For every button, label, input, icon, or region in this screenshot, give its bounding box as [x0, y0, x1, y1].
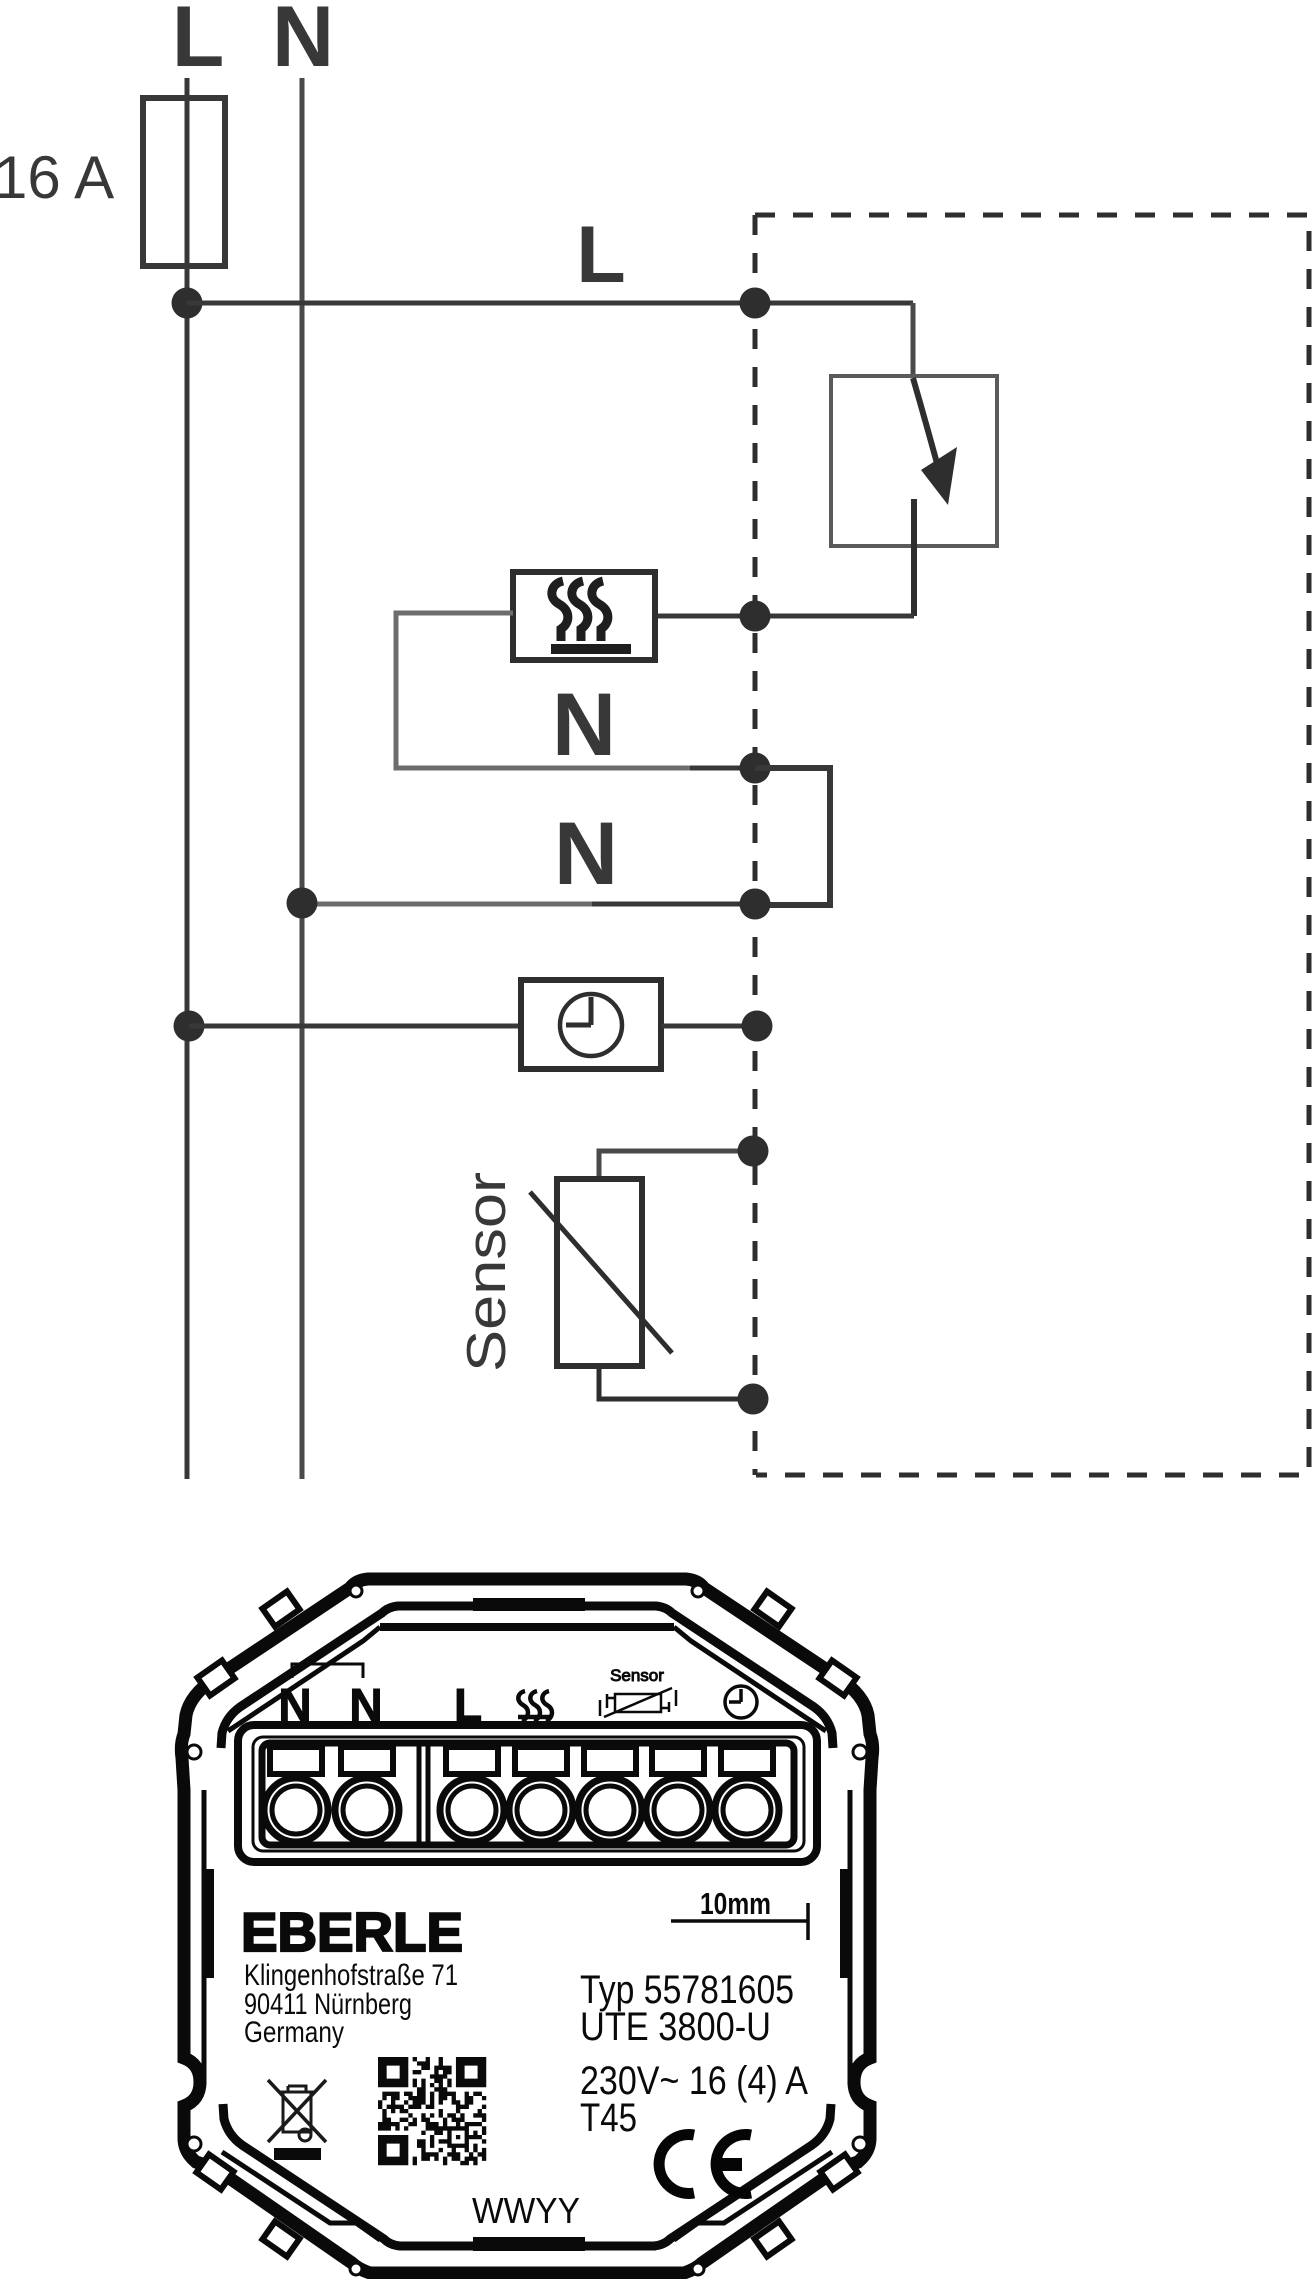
wire switch top lead: [911, 303, 916, 378]
fuse F1 body: [143, 98, 225, 266]
terminal label heater symbol: [518, 1691, 552, 1725]
terminal 1 window: [270, 1747, 322, 1774]
device mounting tab upper-left 1: [262, 1591, 299, 1626]
clock module K1 box: [521, 980, 661, 1069]
svg-text:N: N: [552, 674, 616, 774]
terminal 1 screw: [264, 1778, 328, 1842]
svg-text:N: N: [554, 803, 618, 903]
junction sensor top: [738, 1136, 769, 1167]
svg-text:N: N: [272, 0, 334, 85]
device casing third band top: [380, 1623, 674, 1631]
device casing notch arcs: [187, 1585, 867, 2275]
wire L horizontal to thermostat: [187, 301, 913, 306]
junction clock input: [742, 1011, 773, 1042]
device casing side bar left: [206, 1869, 214, 1978]
device mounting tab upper-left 2: [197, 1660, 234, 1695]
wire N vertical: [300, 78, 305, 1479]
heater E1 box: [513, 572, 655, 660]
device casing outer ring right half: [527, 1579, 873, 2273]
clock module K1 hands: [566, 997, 591, 1025]
terminal 3 screw: [440, 1778, 504, 1842]
wire heater to switch: [655, 614, 914, 619]
wire clock to enclosure: [661, 1024, 757, 1029]
terminal block divider: [419, 1743, 428, 1845]
relay switch S1 arm: [913, 378, 941, 478]
junction N on N line: [287, 888, 318, 919]
relay switch S1 box: [831, 376, 997, 546]
svg-text:16 A: 16 A: [0, 144, 114, 211]
terminal 2 screw: [335, 1778, 399, 1842]
CE marking: [659, 2135, 751, 2194]
device casing third band bottom stubs: [222, 2152, 832, 2240]
terminal N bridge bracket: [292, 1664, 363, 1678]
device mounting tab lower-left 2: [262, 2221, 299, 2256]
device mounting tab lower-right 2: [754, 2221, 791, 2256]
svg-text:T45: T45: [580, 2096, 637, 2140]
sensor RT1 diagonal: [530, 1192, 672, 1353]
device casing side bar right: [840, 1869, 848, 1978]
terminal 7 screw: [715, 1778, 779, 1842]
junction L below fuse: [172, 288, 203, 319]
relay switch S1 arrowhead: [921, 447, 957, 505]
wire N bridge bracket: [755, 768, 830, 905]
terminal 4 screw: [509, 1778, 573, 1842]
terminal 2 window: [341, 1747, 393, 1774]
terminal label clock symbol: [725, 1686, 757, 1718]
terminal 6 screw: [646, 1778, 710, 1842]
device casing bottom tab: [473, 2237, 585, 2251]
terminal 7 window: [721, 1747, 773, 1774]
wire L vertical: [185, 78, 190, 1479]
wire sensor top lead: [599, 1151, 753, 1180]
device casing top tab: [473, 1598, 585, 1611]
terminal 4 window: [515, 1747, 567, 1774]
terminal 5 screw: [578, 1778, 642, 1842]
strip length gauge line: [671, 1903, 808, 1940]
svg-text:UTE 3800-U: UTE 3800-U: [580, 2005, 771, 2049]
thermostat enclosure dashed outline: [755, 215, 1309, 1475]
wire heater N loop: [396, 613, 690, 768]
wire switch bottom lead: [911, 499, 917, 616]
heater E1 element symbol: [552, 581, 608, 641]
sensor RT1 body: [557, 1179, 642, 1366]
junction L clock tap: [174, 1011, 205, 1042]
terminal block inner frame: [253, 1737, 804, 1851]
wire N supply horizontal: [302, 902, 592, 907]
device mounting tab upper-right 2: [819, 1660, 856, 1695]
device casing middle band top: [221, 1606, 656, 1748]
WEEE crossed-out bin icon: [268, 2080, 326, 2142]
svg-text:Sensor: Sensor: [455, 1172, 517, 1372]
wire L to clock: [189, 1024, 521, 1029]
device casing outer ring left half: [181, 1579, 527, 2273]
junction heater L side: [740, 601, 771, 632]
device mounting tab lower-right 1: [820, 2154, 857, 2189]
junction heater N: [740, 753, 771, 784]
terminal label sensor symbol: [615, 1694, 661, 1712]
device mounting tab lower-left 1: [196, 2154, 233, 2189]
terminal 3 window: [446, 1747, 498, 1774]
junction sensor bottom: [738, 1384, 769, 1415]
svg-text:WWYY: WWYY: [472, 2190, 580, 2231]
WEEE bar: [274, 2148, 321, 2160]
heater E1 base bar: [551, 644, 631, 654]
QR code: [378, 2057, 486, 2165]
terminal 5 window: [584, 1747, 636, 1774]
svg-text:EBERLE: EBERLE: [241, 1901, 463, 1963]
wire sensor bottom lead: [599, 1366, 753, 1399]
clock module K1 dial: [560, 994, 622, 1056]
terminal 6 window: [652, 1747, 704, 1774]
device casing middle band bottom: [223, 2104, 656, 2246]
svg-text:L: L: [576, 210, 625, 300]
svg-text:L: L: [172, 0, 225, 85]
svg-text:10mm: 10mm: [700, 1886, 771, 1921]
device casing inner ring sides: [204, 1790, 850, 2085]
junction L on dashed enclosure: [740, 288, 771, 319]
device mounting tab upper-right 1: [754, 1591, 791, 1626]
terminal block outer frame: [238, 1725, 817, 1862]
svg-text:Sensor: Sensor: [610, 1666, 664, 1685]
svg-text:Germany: Germany: [244, 2016, 344, 2049]
junction N on enclosure: [740, 889, 771, 920]
terminal block holder frame: [262, 1743, 794, 1845]
